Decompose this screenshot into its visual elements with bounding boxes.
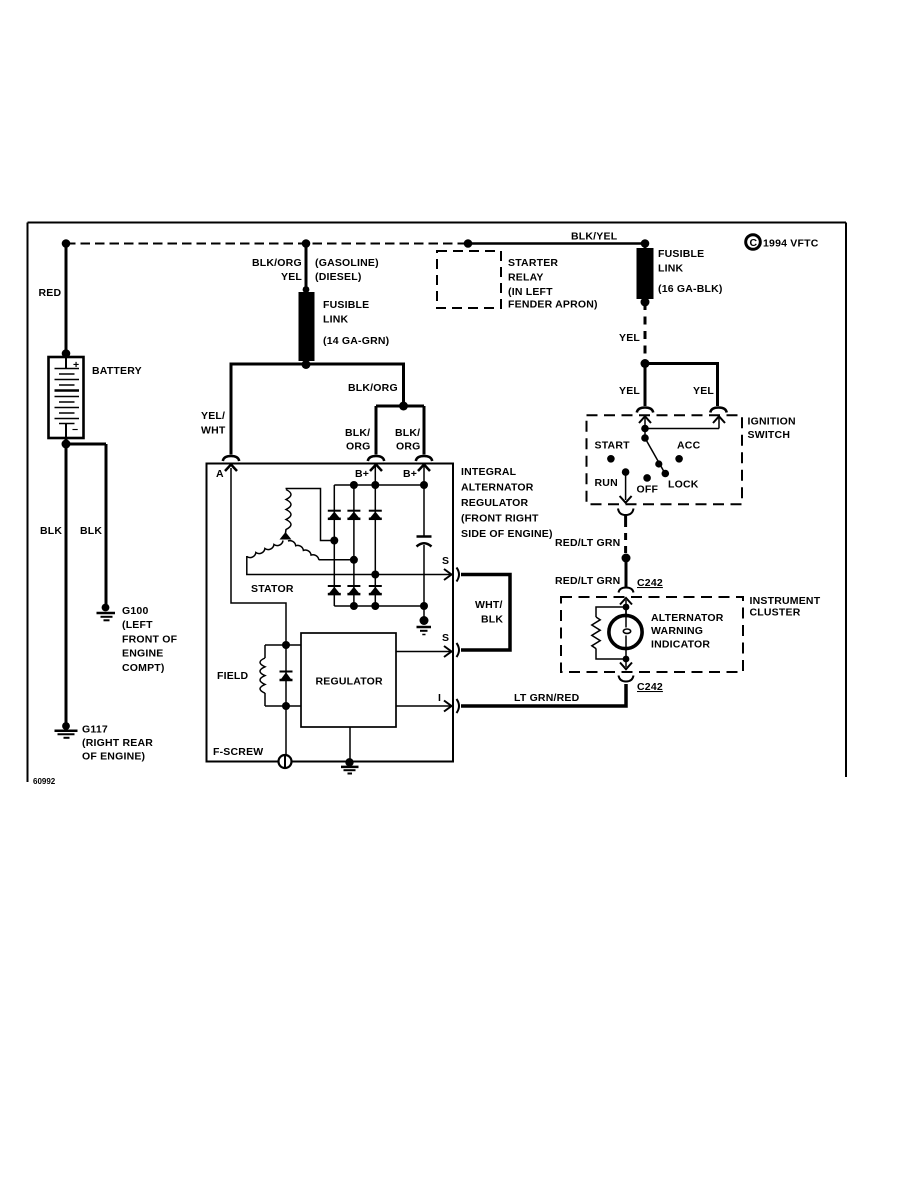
instrument cluster box xyxy=(561,595,821,672)
svg-text:BLK: BLK xyxy=(481,614,503,626)
svg-text:RED: RED xyxy=(39,287,62,299)
svg-text:LT GRN/RED: LT GRN/RED xyxy=(514,692,580,704)
svg-text:60992: 60992 xyxy=(33,777,56,786)
connector at stator S output xyxy=(457,568,460,582)
regulator I output wire xyxy=(396,692,452,712)
ground G117 xyxy=(55,722,154,762)
svg-text:COMPT): COMPT) xyxy=(122,662,165,674)
bridge column 1 wire xyxy=(330,485,338,606)
svg-text:OF ENGINE): OF ENGINE) xyxy=(82,751,145,763)
connector at A terminal xyxy=(223,456,239,461)
svg-text:SWITCH: SWITCH xyxy=(748,429,791,441)
resistor in cluster xyxy=(592,607,626,659)
wire bus dashed battery to starter relay xyxy=(62,239,468,248)
ignition switch box xyxy=(587,415,796,504)
wire stator to S line xyxy=(247,556,452,575)
svg-text:YEL: YEL xyxy=(619,385,640,397)
field diode xyxy=(280,645,293,706)
svg-text:BLK: BLK xyxy=(40,525,62,537)
svg-text:BLK/ORG: BLK/ORG xyxy=(252,257,302,269)
diode D4 xyxy=(328,586,341,595)
svg-text:BLK: BLK xyxy=(80,525,102,537)
svg-text:SIDE OF ENGINE): SIDE OF ENGINE) xyxy=(461,528,553,540)
svg-text:LINK: LINK xyxy=(323,314,349,326)
svg-text:WARNING: WARNING xyxy=(651,625,703,637)
svg-text:C242: C242 xyxy=(637,681,663,693)
terminal B+ 2 arrow xyxy=(403,465,430,481)
wire BLK/YEL xyxy=(464,231,645,248)
wire YEL/WHT to alternator A terminal xyxy=(201,364,306,455)
wire LT GRN/RED xyxy=(461,684,626,706)
svg-text:LINK: LINK xyxy=(658,263,684,275)
svg-text:+: + xyxy=(73,359,79,371)
svg-text:ENGINE: ENGINE xyxy=(122,648,163,660)
bridge column 4 wire xyxy=(423,464,425,619)
svg-text:BATTERY: BATTERY xyxy=(92,365,142,377)
wire RED/LT GRN xyxy=(555,514,631,587)
stator S output arrow xyxy=(442,555,452,580)
diode D2 xyxy=(347,511,360,520)
battery xyxy=(49,349,142,438)
regulator box xyxy=(301,633,396,727)
wire BLK/ORG to B+ terminals xyxy=(306,364,424,455)
wire BLK battery negative to G117 xyxy=(40,438,71,726)
svg-text:ALTERNATOR: ALTERNATOR xyxy=(651,612,724,624)
svg-text:RUN: RUN xyxy=(595,477,618,489)
svg-text:WHT/: WHT/ xyxy=(475,599,503,611)
cluster input arrow xyxy=(620,598,632,614)
svg-text:INTEGRAL: INTEGRAL xyxy=(461,466,517,478)
svg-text:LOCK: LOCK xyxy=(668,479,699,491)
connector at B+ terminal 2 xyxy=(416,456,432,461)
cluster output arrow xyxy=(620,656,632,670)
connector at B+ terminal 1 xyxy=(368,456,384,461)
svg-text:BLK/: BLK/ xyxy=(395,427,420,439)
svg-text:G100: G100 xyxy=(122,605,149,617)
starter relay box xyxy=(437,251,598,311)
connector at regulator I output xyxy=(457,699,460,713)
wire BLK battery negative to G100 xyxy=(66,444,106,608)
svg-text:YEL/: YEL/ xyxy=(201,410,225,422)
connector below ignition switch xyxy=(618,509,634,516)
svg-text:IGNITION: IGNITION xyxy=(748,416,796,428)
svg-text:B+: B+ xyxy=(403,468,417,480)
alternator box U1 xyxy=(207,464,553,762)
svg-text:YEL: YEL xyxy=(281,271,302,283)
regulator ground xyxy=(341,727,359,774)
svg-text:YEL: YEL xyxy=(619,332,640,344)
svg-text:FIELD: FIELD xyxy=(217,670,249,682)
svg-text:BLK/YEL: BLK/YEL xyxy=(571,231,618,243)
svg-text:REGULATOR: REGULATOR xyxy=(461,497,529,509)
wire YEL right branch to ignition xyxy=(645,364,718,407)
field winding xyxy=(217,641,301,710)
svg-text:INSTRUMENT: INSTRUMENT xyxy=(750,595,821,607)
svg-text:FRONT OF: FRONT OF xyxy=(122,634,178,646)
svg-text:STATOR: STATOR xyxy=(251,583,294,595)
svg-text:A: A xyxy=(216,468,224,480)
bridge column 2 wire xyxy=(350,485,358,606)
svg-text:RED/LT GRN: RED/LT GRN xyxy=(555,575,620,587)
terminal B+ 1 arrow xyxy=(355,465,382,481)
ground inside alternator xyxy=(417,616,432,635)
svg-text:RELAY: RELAY xyxy=(508,272,544,284)
diode D1 xyxy=(328,511,341,520)
svg-text:−: − xyxy=(72,424,78,436)
svg-text:(RIGHT REAR: (RIGHT REAR xyxy=(82,737,153,749)
wire YEL fusible link to ignition switch xyxy=(619,302,650,368)
wire YEL left branch to ignition xyxy=(619,364,645,407)
svg-text:B+: B+ xyxy=(355,468,369,480)
svg-text:ACC: ACC xyxy=(677,440,701,452)
diode D5 xyxy=(347,586,360,595)
svg-text:1994 VFTC: 1994 VFTC xyxy=(763,238,819,250)
diode D6 xyxy=(369,586,382,595)
svg-text:(FRONT RIGHT: (FRONT RIGHT xyxy=(461,513,539,525)
regulator S output wire xyxy=(396,632,452,657)
svg-text:WHT: WHT xyxy=(201,425,226,437)
svg-text:FENDER APRON): FENDER APRON) xyxy=(508,299,598,311)
ground G100 xyxy=(97,604,178,674)
svg-text:BLK/: BLK/ xyxy=(345,427,370,439)
svg-text:ORG: ORG xyxy=(346,441,371,453)
svg-text:F-SCREW: F-SCREW xyxy=(213,746,263,758)
svg-text:(LEFT: (LEFT xyxy=(122,619,153,631)
svg-text:(14 GA-GRN): (14 GA-GRN) xyxy=(323,335,389,347)
svg-text:BLK/ORG: BLK/ORG xyxy=(348,382,398,394)
svg-text:(GASOLINE): (GASOLINE) xyxy=(315,257,379,269)
connector at ignition switch right xyxy=(710,408,726,413)
svg-text:REGULATOR: REGULATOR xyxy=(316,676,384,688)
svg-text:S: S xyxy=(442,555,449,567)
svg-text:START: START xyxy=(595,440,631,452)
svg-text:INDICATOR: INDICATOR xyxy=(651,639,710,651)
svg-text:C242: C242 xyxy=(637,577,663,589)
connector at regulator S input xyxy=(457,643,460,657)
bridge column 3 wire xyxy=(371,464,379,606)
wire RED battery positive xyxy=(39,244,67,358)
diode D3 xyxy=(369,511,382,520)
svg-text:ALTERNATOR: ALTERNATOR xyxy=(461,482,534,494)
svg-text:C: C xyxy=(750,237,758,249)
capacitor C1 xyxy=(417,537,432,547)
stator windings xyxy=(247,489,331,596)
connector C242 bottom xyxy=(619,676,663,694)
connector C242 top xyxy=(619,577,663,593)
svg-text:(DIESEL): (DIESEL) xyxy=(315,271,362,283)
wire F-SCREW xyxy=(213,706,292,768)
wire A terminal to field xyxy=(231,468,286,645)
wire BLK/ORG YEL drop to fusible link F1 xyxy=(252,244,379,290)
ignition switch internals xyxy=(595,416,726,502)
svg-text:FUSIBLE: FUSIBLE xyxy=(658,248,704,260)
fusible link F2 (16 GA-BLK) xyxy=(637,239,723,306)
svg-text:STARTER: STARTER xyxy=(508,257,558,269)
page frame xyxy=(28,223,847,783)
svg-text:RED/LT GRN: RED/LT GRN xyxy=(555,537,620,549)
alternator warning indicator bulb xyxy=(609,609,724,657)
svg-text:OFF: OFF xyxy=(637,484,659,496)
svg-text:I: I xyxy=(438,692,441,704)
svg-text:(16 GA-BLK): (16 GA-BLK) xyxy=(658,283,723,295)
svg-text:(IN LEFT: (IN LEFT xyxy=(508,286,553,298)
diode bridge rails xyxy=(334,481,428,610)
svg-text:FUSIBLE: FUSIBLE xyxy=(323,299,369,311)
fusible link F1 (14 GA-GRN) xyxy=(299,286,390,369)
wire WHT/BLK loop xyxy=(461,575,510,651)
svg-text:CLUSTER: CLUSTER xyxy=(750,607,801,619)
svg-text:S: S xyxy=(442,632,449,644)
connector at ignition switch left xyxy=(637,408,653,413)
terminal A arrow xyxy=(216,465,237,481)
svg-text:G117: G117 xyxy=(82,724,108,736)
svg-text:ORG: ORG xyxy=(396,441,421,453)
copyright mark xyxy=(746,235,819,250)
svg-text:YEL: YEL xyxy=(693,385,714,397)
